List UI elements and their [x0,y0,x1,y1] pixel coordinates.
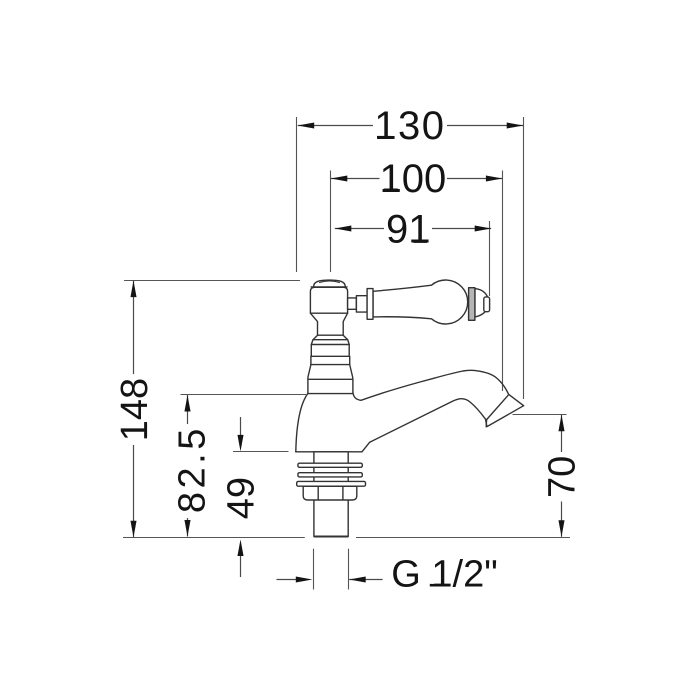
svg-text:148: 148 [114,378,156,441]
svg-text:82.5: 82.5 [172,425,214,513]
svg-text:130: 130 [374,104,445,148]
svg-text:100: 100 [380,157,447,201]
svg-text:49: 49 [220,477,262,519]
svg-text:91: 91 [386,208,431,252]
svg-text:G 1/2": G 1/2" [391,554,497,596]
svg-text:70: 70 [541,456,583,498]
